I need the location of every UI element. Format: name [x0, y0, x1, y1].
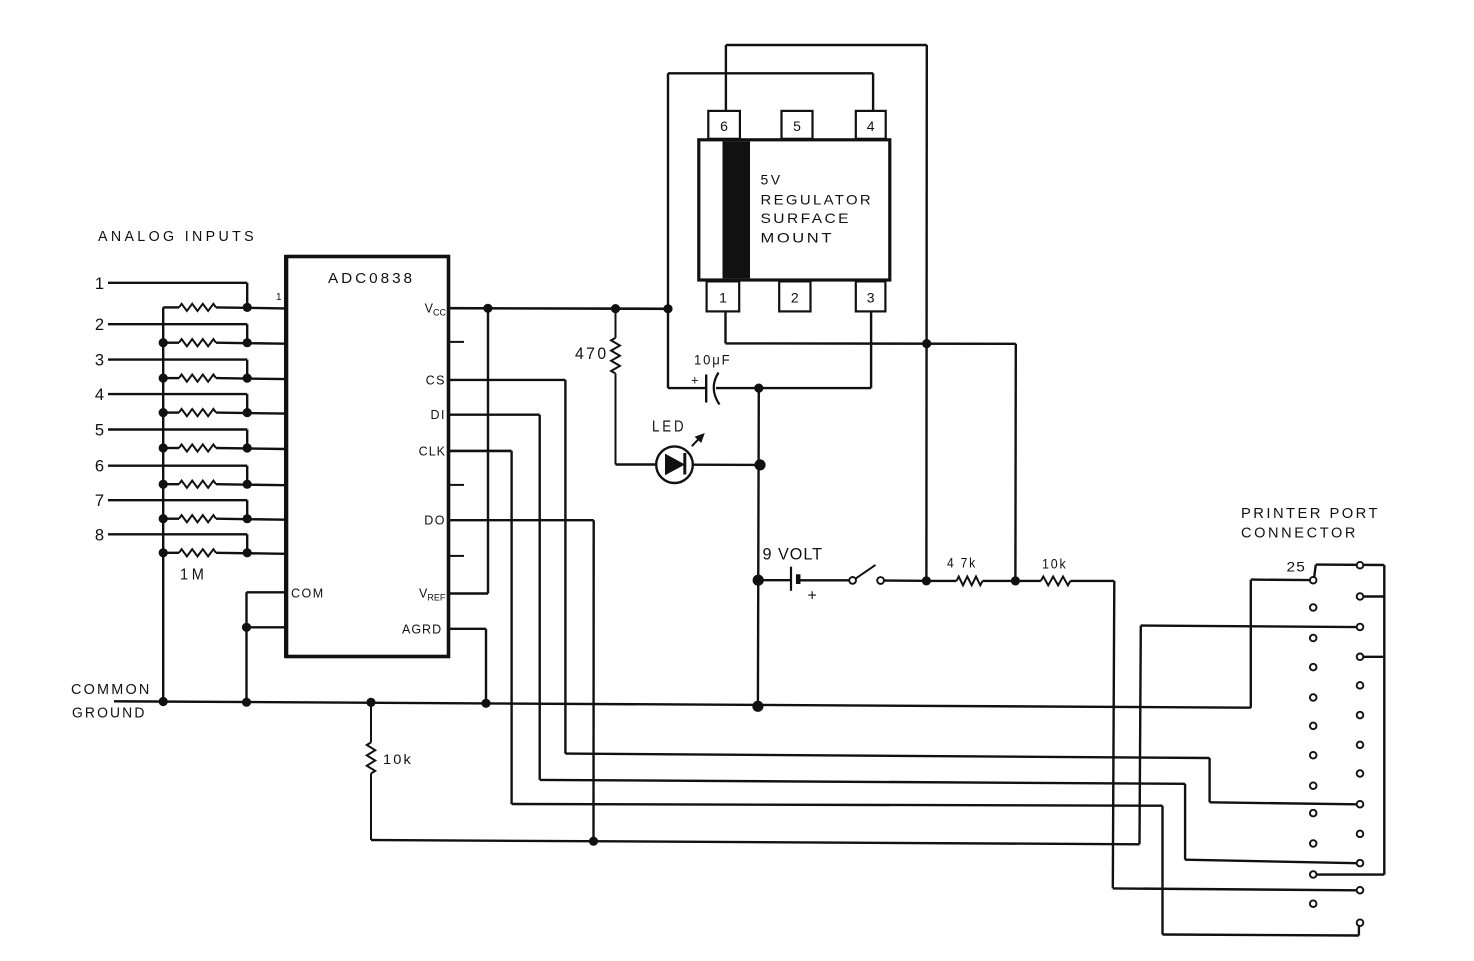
- svg-text:ANALOG INPUTS: ANALOG INPUTS: [98, 229, 257, 245]
- svg-text:3: 3: [867, 290, 875, 306]
- pin stub (unlabeled, row6): [449, 484, 465, 486]
- svg-text:1: 1: [276, 292, 282, 303]
- resistor R2 1M left wire: [163, 342, 179, 344]
- wire 4.7k to node: [983, 580, 1016, 582]
- regulator pin 3 box: [856, 281, 886, 311]
- wire input 6 lead: [108, 465, 247, 467]
- battery BT1 short plate: [796, 574, 801, 584]
- junction bus row 8: [159, 548, 168, 557]
- node analog input bus (vertical, to common ground): [162, 307, 164, 701]
- wire DO rail (bottom horizontal): [371, 840, 1140, 844]
- connector pin R3: [1357, 624, 1364, 631]
- svg-text:8: 8: [95, 526, 104, 544]
- junction bus row 5: [159, 443, 168, 452]
- battery BT1 long plate: [790, 567, 792, 591]
- switch S1 lever: [856, 565, 876, 579]
- junction bus row 7: [159, 514, 168, 523]
- svg-text:2: 2: [791, 290, 799, 306]
- wire top1 right down (to switch node): [925, 45, 928, 581]
- wire DO down: [592, 520, 595, 841]
- wire R2 stub: [1364, 595, 1385, 597]
- svg-text:PRINTER PORT: PRINTER PORT: [1241, 506, 1380, 522]
- svg-text:+: +: [691, 373, 699, 388]
- connector pin R12: [1357, 887, 1364, 894]
- wire DO rail to pin R3: [1141, 626, 1357, 628]
- svg-text:CS: CS: [426, 373, 446, 387]
- LED D1 cathode bar: [683, 453, 686, 475]
- wire CLK across: [512, 804, 1163, 806]
- switch S1 contact b: [877, 577, 884, 584]
- wire pin25 to R1 (top link): [1316, 563, 1385, 566]
- junction top1-pin1 line: [922, 339, 931, 348]
- wire R1 to ADC0838: [216, 307, 285, 308]
- svg-text:SURFACE: SURFACE: [761, 210, 852, 226]
- wire L11 link: [1316, 873, 1384, 875]
- svg-text:5: 5: [793, 118, 801, 134]
- svg-text:10k: 10k: [1042, 557, 1068, 572]
- wire to connector pin R12: [1113, 888, 1357, 890]
- wire input 2 drop: [246, 324, 248, 343]
- IC U1 ADC0838 body: [287, 257, 449, 657]
- svg-text:5: 5: [95, 422, 104, 440]
- wire ground to pin25 (horizontal): [1251, 578, 1310, 581]
- svg-text:REGULATOR: REGULATOR: [761, 192, 874, 208]
- capacitor C1 10uF plus plate: [705, 375, 707, 403]
- junction VCC-470: [611, 304, 620, 313]
- regulator pin 4 box: [856, 111, 886, 139]
- wire input 4 lead: [108, 393, 247, 395]
- wire 470 top: [615, 309, 617, 338]
- wire battery minus: [758, 579, 791, 581]
- connector pin L12: [1310, 900, 1317, 907]
- regulator stripe: [723, 141, 751, 278]
- wire VCC from ADC0838: [449, 307, 669, 310]
- connector pin L9: [1310, 810, 1317, 817]
- svg-text:MOUNT: MOUNT: [761, 230, 835, 246]
- switch S1 contact a: [849, 577, 856, 584]
- svg-text:5V: 5V: [761, 172, 783, 188]
- junction VCC-regulator branch: [663, 304, 672, 313]
- junction bus row 6: [159, 480, 168, 489]
- connector pin L10: [1310, 840, 1317, 847]
- junction bus row 4: [159, 408, 168, 417]
- junction input 1: [243, 303, 252, 312]
- wire AGRD stub: [449, 628, 487, 630]
- wire R4 to ADC0838: [216, 413, 285, 414]
- junction VCC-VREF branch: [483, 304, 492, 313]
- svg-text:9 VOLT: 9 VOLT: [763, 546, 824, 564]
- connector pin L4: [1310, 664, 1317, 671]
- wire CS jog down: [1208, 758, 1210, 802]
- wire COM second stub: [247, 626, 287, 628]
- wire CS down: [564, 380, 566, 754]
- connector pin L2: [1310, 604, 1317, 611]
- wire input 2 lead: [108, 323, 247, 325]
- svg-text:1M: 1M: [180, 567, 208, 584]
- svg-text:4: 4: [867, 118, 875, 134]
- LED arrow: [692, 437, 701, 446]
- svg-text:ADC0838: ADC0838: [328, 271, 415, 287]
- resistor 10k (top): [1041, 577, 1071, 586]
- connector pin R4: [1357, 654, 1364, 661]
- resistor R7 1M: [179, 515, 216, 522]
- regulator pin 2 box: [779, 281, 810, 311]
- junction DO-10k: [589, 837, 598, 846]
- svg-text:470: 470: [575, 345, 609, 363]
- wire R3 to ADC0838: [216, 378, 285, 379]
- wire regulator-branch vertical (wire2 left / cap feed): [667, 73, 669, 388]
- wire CS from chip: [449, 379, 566, 381]
- junction input 6: [243, 480, 252, 489]
- wire CLK down: [510, 451, 512, 804]
- junction COM-AGND stub: [242, 623, 251, 632]
- connector pin R11: [1357, 860, 1364, 867]
- svg-text:6: 6: [95, 458, 104, 476]
- junction bus-ground: [159, 697, 168, 706]
- wire CLK from chip: [449, 450, 512, 453]
- resistor R3 1M left wire: [163, 377, 179, 379]
- svg-text:1: 1: [719, 290, 727, 306]
- resistor R6 1M left wire: [163, 483, 179, 485]
- junction 10k-pulldown top: [366, 698, 375, 707]
- svg-text:DO: DO: [424, 514, 446, 528]
- wire R5 to ADC0838: [216, 448, 285, 449]
- wire pin1 down: [724, 313, 726, 344]
- connector pin L5: [1310, 694, 1317, 701]
- wire to 10k: [1015, 580, 1040, 582]
- connector pin R13: [1357, 919, 1364, 926]
- IC U2 regulator body: [699, 140, 890, 280]
- junction COM on ground: [242, 698, 251, 707]
- junction rail on ground: [752, 701, 763, 712]
- junction input 2: [243, 338, 252, 347]
- wire regulator pin3 drop: [870, 313, 872, 389]
- wire cap left: [668, 387, 706, 389]
- regulator pin 5 box: [782, 111, 813, 139]
- wire R4 stub: [1364, 656, 1385, 658]
- wire input 8 drop: [246, 534, 248, 553]
- connector pin R7: [1357, 742, 1364, 749]
- pin stub (unlabeled, row2): [449, 341, 465, 343]
- wire input 6 drop: [246, 466, 248, 485]
- wire pin6 up: [725, 45, 727, 111]
- resistor R8 1M: [179, 549, 216, 556]
- wire DO rail up (vertical B): [1140, 626, 1141, 845]
- resistor R4 1M left wire: [163, 411, 179, 413]
- resistor R5 1M left wire: [163, 447, 179, 449]
- wire input 3 drop: [246, 360, 248, 379]
- wire input 4 drop: [246, 394, 248, 413]
- wire R6 to ADC0838: [216, 484, 285, 485]
- wire COM drop: [245, 592, 247, 702]
- junction AGRD on ground: [481, 699, 490, 708]
- svg-text:+: +: [808, 588, 817, 605]
- svg-text:10μF: 10μF: [694, 352, 732, 368]
- resistor R2 1M: [179, 339, 216, 346]
- wire DI from chip: [449, 414, 540, 416]
- svg-text:LED: LED: [652, 419, 687, 436]
- junction battery minus: [753, 575, 764, 586]
- wire AGRD to ground (vertical): [485, 629, 487, 704]
- resistor 470: [611, 338, 620, 374]
- wire DI to pin R11: [1185, 860, 1356, 864]
- resistor 4.7k: [957, 577, 983, 586]
- regulator pin 1 box: [707, 281, 740, 311]
- svg-text:7: 7: [95, 492, 104, 510]
- svg-text:10k: 10k: [383, 752, 413, 767]
- wire input 1 drop: [246, 283, 248, 308]
- wire 10k-pulldown bottom: [370, 774, 372, 841]
- wire 470 bottom: [615, 374, 617, 465]
- wire DI jog down: [1184, 784, 1186, 860]
- connector pin R2: [1357, 593, 1364, 600]
- junction input 3: [243, 374, 252, 383]
- LED D1 triangle: [665, 454, 685, 476]
- junction input 8: [243, 548, 252, 557]
- junction bus row 2: [159, 338, 168, 347]
- wire CLK up to pin R13: [1358, 926, 1360, 936]
- wire DI across: [540, 780, 1185, 784]
- wire CLK bottom: [1163, 935, 1359, 936]
- connector pin L6: [1310, 723, 1317, 730]
- junction bus row 3: [159, 374, 168, 383]
- connector pin L3: [1310, 635, 1317, 642]
- wire pin1 horizontal: [726, 342, 1016, 345]
- LED D1 circle: [656, 446, 693, 483]
- svg-text:COM: COM: [291, 587, 325, 601]
- svg-text:3: 3: [95, 352, 104, 370]
- regulator pin 6 box: [708, 111, 740, 139]
- wire DO from chip: [449, 519, 594, 521]
- wire regulator top2 (pin4 to VCC): [668, 72, 873, 74]
- wire R8 to ADC0838: [216, 553, 285, 554]
- svg-text:DI: DI: [431, 408, 447, 422]
- junction switch-4.7k: [922, 576, 931, 585]
- wire pin1 line down to 4.7k-10k node: [1014, 344, 1017, 581]
- connector pin R9: [1357, 801, 1364, 808]
- connector pin L7: [1310, 752, 1317, 759]
- resistor R4 1M: [179, 409, 216, 416]
- svg-text:AGRD: AGRD: [402, 622, 442, 636]
- svg-text:1: 1: [95, 275, 104, 293]
- capacitor C1 curved plate: [714, 373, 720, 405]
- wire 10k-pulldown top: [370, 702, 372, 742]
- wire input 5 drop: [246, 430, 248, 449]
- connector pin L11: [1310, 871, 1317, 878]
- wire VREF stub: [449, 592, 489, 594]
- svg-text:6: 6: [720, 118, 728, 134]
- pin stub (unlabeled, row8): [449, 555, 465, 557]
- junction input 7: [243, 514, 252, 523]
- resistor R1 1M left wire: [163, 306, 179, 308]
- svg-text:2: 2: [95, 316, 104, 334]
- svg-text:COMMON: COMMON: [71, 682, 152, 698]
- wire collector vertical: [1383, 565, 1385, 875]
- wire input 3 lead: [108, 358, 247, 360]
- connector pin R5: [1357, 682, 1364, 689]
- wire CLK jog down: [1161, 806, 1163, 935]
- wire CS across: [565, 754, 1209, 758]
- junction cap-ground rail: [754, 384, 763, 393]
- wire to 4.7k: [926, 580, 956, 582]
- wire regulator top1 (pin6 loop): [726, 44, 927, 46]
- wire VREF to VCC (vertical): [487, 308, 489, 593]
- wire switch to node: [884, 579, 922, 582]
- wire battery to switch: [798, 579, 849, 581]
- svg-text:GROUND: GROUND: [72, 706, 147, 722]
- resistor R1 1M: [179, 304, 216, 311]
- junction 4.7k-10k: [1011, 576, 1020, 585]
- connector pin R8: [1357, 770, 1364, 777]
- connector pin R1: [1357, 562, 1364, 569]
- wire COM pin: [247, 591, 287, 593]
- junction input 5: [243, 443, 252, 452]
- wire input 5 lead: [108, 428, 247, 430]
- wire R2 to ADC0838: [216, 343, 285, 344]
- wire CS to pin R9: [1210, 802, 1357, 804]
- wire pin4 up: [872, 73, 874, 111]
- wire cap/LED/battery to ground (vertical): [757, 388, 760, 706]
- svg-text:25: 25: [1287, 560, 1307, 575]
- connector pin L8: [1310, 782, 1317, 789]
- wire input 7 drop: [246, 500, 248, 519]
- wire input 7 lead: [108, 499, 247, 501]
- wire input 8 lead: [108, 533, 247, 535]
- svg-text:4: 4: [95, 386, 104, 404]
- wire cap right: [716, 387, 871, 389]
- resistor R3 1M: [179, 375, 216, 382]
- svg-text:CONNECTOR: CONNECTOR: [1241, 526, 1358, 542]
- junction input 4: [243, 408, 252, 417]
- junction LED cathode: [754, 459, 765, 470]
- resistor R8 1M left wire: [163, 552, 179, 554]
- wire input 1 lead: [108, 282, 247, 284]
- resistor R7 1M left wire: [163, 518, 179, 520]
- wire 10k down (vertical A): [1113, 581, 1115, 889]
- wire 10k right: [1070, 580, 1114, 582]
- wire DI down: [539, 415, 541, 780]
- wire ground to connector pin25 (up): [1250, 580, 1252, 708]
- resistor R6 1M: [179, 481, 216, 488]
- wire 470 to LED: [616, 463, 658, 465]
- connector pin R10: [1357, 831, 1364, 838]
- resistor R5 1M: [179, 444, 216, 451]
- resistor 10k pulldown: [367, 742, 375, 773]
- svg-text:CLK: CLK: [419, 444, 446, 458]
- svg-text:4 7k: 4 7k: [947, 556, 977, 571]
- wire LED to ground rail: [693, 464, 760, 467]
- wire R7 to ADC0838: [216, 519, 285, 520]
- connector pin R6: [1357, 712, 1364, 719]
- connector pin L1: [1310, 577, 1317, 584]
- net COMMON GROUND rail: [114, 701, 1251, 707]
